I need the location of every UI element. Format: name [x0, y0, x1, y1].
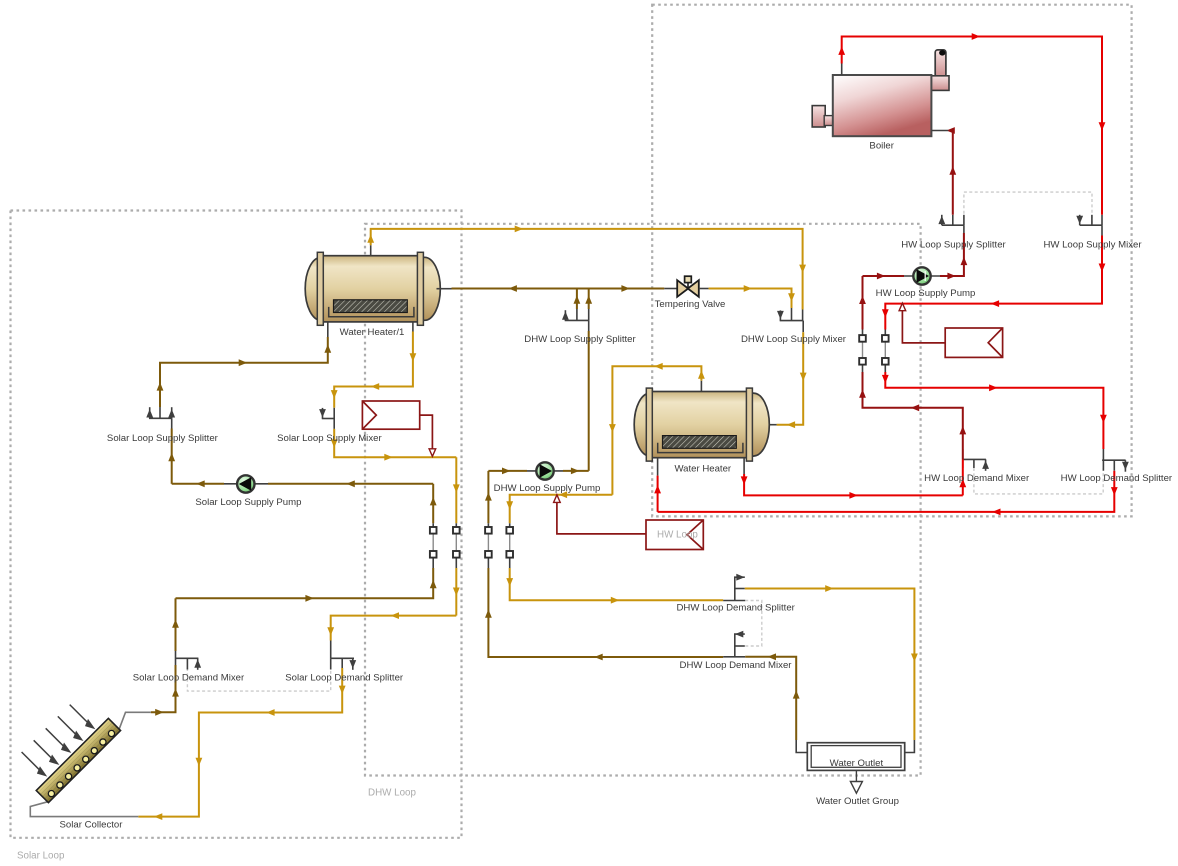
wire: WH1 top outlet long header (gold): [371, 229, 803, 310]
node: port pair squares (HW loop, right column): [882, 335, 889, 365]
wire: mixer up and left to HW pump (dark red): [863, 372, 963, 459]
svg-text:HW Loop Supply Splitter: HW Loop Supply Splitter: [901, 240, 1006, 251]
wire: demand splitter branch to water outlet right (gold): [745, 589, 915, 741]
wire: tank WH1 bottom-left port stub: [327, 322, 329, 337]
svg-text:Tempering Valve: Tempering Valve: [655, 299, 726, 310]
wire: riser into HW supply splitter: [963, 233, 965, 257]
mixer Solar Loop Demand Mixer: [176, 651, 199, 670]
HW supply bypass pipe (dashed): [964, 192, 1092, 224]
wire: splitter down to DHW pump line (brown): [588, 331, 590, 471]
loop reference tag box HW Loop (chevron left): [557, 502, 703, 550]
node: port pair squares on DHW feed riser: [506, 527, 513, 558]
wire: splitter to solar pump line (brown): [171, 429, 173, 484]
svg-text:Water Heater/1: Water Heater/1: [340, 327, 405, 338]
svg-text:Solar Loop Supply Mixer: Solar Loop Supply Mixer: [277, 433, 382, 444]
boiler Boiler: [812, 50, 949, 136]
wire: grey stub to collector bottom port: [30, 802, 138, 817]
splitter HW Loop Demand Splitter: [1102, 449, 1126, 472]
loop reference tag box (HW supply side, chevron right edge): [902, 310, 1002, 357]
wire: WH1 right port to DHW supply splitter and valve (brown): [452, 288, 665, 290]
wire: black stub at HW demand mixer: [962, 449, 964, 468]
mixer DHW Loop Supply Mixer: [780, 308, 804, 332]
wire: mixer down then left (bright red): [885, 236, 1102, 330]
wire: valve line from splitter to tempering valve (brown->black): [664, 288, 676, 290]
HW Loop dashed group box: [652, 5, 1131, 517]
wire: WH1 bottom-right port down to supply mixer loop (gold): [412, 317, 414, 332]
wire: DHW demand mixer return riser (brown, crosses boundary): [487, 471, 489, 523]
splitter Solar Loop Supply Splitter: [149, 407, 172, 428]
wire: HW pump line (dark red): [863, 275, 905, 277]
wire: black stubs at solar pump: [224, 483, 268, 485]
wire: boiler bottom-right stub: [931, 130, 948, 132]
svg-text:HW Loop: HW Loop: [657, 530, 698, 541]
wire: WH HX return riser into mixer (red): [962, 459, 964, 495]
splitter Solar Loop Demand Splitter: [331, 641, 354, 670]
DHW demand bypass pipe (dashed): [745, 601, 762, 647]
pump DHW Loop Supply Pump: [536, 462, 553, 479]
valve Tempering Valve: [677, 276, 699, 297]
HW demand bypass pipe (dashed): [974, 468, 1103, 494]
svg-text:DHW Loop Demand Splitter: DHW Loop Demand Splitter: [677, 602, 796, 613]
mixer HW Loop Supply Mixer: [1080, 215, 1102, 236]
wire: mixer outlet down and right (gold): [334, 429, 456, 457]
component Water Outlet: [807, 743, 904, 771]
wire: dark red rise through port squares: [862, 365, 864, 372]
svg-text:DHW Loop Supply Pump: DHW Loop Supply Pump: [494, 483, 601, 494]
mixer HW Loop Demand Mixer: [963, 459, 986, 470]
splitter DHW Loop Demand Splitter: [723, 577, 745, 600]
wire: demand splitter to WH HX inlet (bright red): [658, 471, 1115, 512]
wire: solar demand splitter feed (gold): [331, 616, 457, 641]
wire: WH right port stub: [767, 424, 777, 426]
solar demand bypass pipe (dashed): [187, 668, 330, 691]
node: port pair squares on DHW return riser: [485, 527, 492, 558]
svg-text:Solar Loop Supply Splitter: Solar Loop Supply Splitter: [107, 433, 219, 444]
svg-text:DHW Loop Supply Mixer: DHW Loop Supply Mixer: [741, 334, 847, 345]
solar collector panel: [36, 718, 120, 802]
wire: water outlet left to demand mixer (brown): [745, 657, 796, 740]
wire: splitter risers (brown): [576, 289, 578, 310]
svg-text:Solar Loop: Solar Loop: [17, 851, 65, 862]
svg-text:Solar Loop Supply Pump: Solar Loop Supply Pump: [195, 497, 301, 508]
svg-text:Water Heater: Water Heater: [674, 464, 731, 475]
wire: WH bottom-right port to HW demand mixer (red): [743, 458, 745, 474]
wire: collector outlet riser to mixer (brown): [151, 665, 176, 712]
node: port pair squares on solar demand line: [453, 527, 460, 558]
wire: WH outlet to demand splitter (gold, crosses boundary): [510, 495, 613, 524]
svg-text:DHW Loop: DHW Loop: [368, 788, 416, 799]
wire: WH top port outlet (gold): [612, 366, 701, 494]
svg-text:HW Loop Supply Pump: HW Loop Supply Pump: [876, 288, 976, 299]
svg-text:HW Loop Demand Splitter: HW Loop Demand Splitter: [1061, 473, 1173, 484]
wire: DHW pump line (brown): [563, 470, 589, 472]
svg-text:DHW Loop Supply Splitter: DHW Loop Supply Splitter: [524, 334, 636, 345]
splitter HW Loop Supply Splitter: [942, 215, 964, 233]
sun ray arrows onto collector: [22, 705, 94, 776]
svg-text:Water Outlet: Water Outlet: [830, 758, 884, 769]
wire: stub into solar supply splitter: [159, 407, 161, 418]
wire: WH1 top port stub: [370, 245, 372, 256]
tank Water Heater/1: [305, 252, 440, 325]
wire: HW source into WH bottom-left port (red): [657, 458, 659, 476]
wire: WH1 inlet riser (brown): [160, 337, 328, 407]
svg-text:Solar Collector: Solar Collector: [60, 820, 124, 831]
wire: valve outlet to DHW supply mixer (gold): [699, 288, 709, 290]
wire: grey stub from collector top port: [119, 712, 151, 730]
svg-text:Water Outlet Group: Water Outlet Group: [816, 796, 899, 807]
pump HW Loop Supply Pump: [913, 267, 930, 284]
wire: solar pump discharge line (brown): [268, 483, 433, 485]
wire: solar pump suction line (brown): [172, 483, 224, 485]
wire: splitter down to collector inlet (gold): [138, 668, 342, 817]
node: port pair squares on solar supply riser: [430, 527, 437, 558]
splitter DHW Loop Supply Splitter: [565, 309, 589, 331]
svg-text:DHW Loop Demand Mixer: DHW Loop Demand Mixer: [680, 660, 793, 671]
wire: gold riser down to demand splitter feed (crosses loop boundary): [455, 457, 457, 523]
wire: water outlet group stub and symbol: [855, 770, 857, 781]
mixer Solar Loop Supply Mixer: [322, 408, 334, 429]
node: port pair squares (HW loop, left column): [859, 335, 866, 365]
wire: boiler outlet top to HW supply mixer (bright red): [841, 64, 843, 76]
mixer DHW Loop Demand Mixer: [723, 634, 745, 657]
pump Solar Loop Supply Pump: [237, 475, 254, 492]
wire: mixer outlet down to WH right port (gold): [777, 332, 804, 425]
wire: red drop through port squares: [884, 330, 886, 335]
svg-text:Solar Loop Demand Splitter: Solar Loop Demand Splitter: [285, 673, 404, 684]
svg-text:HW Loop Supply Mixer: HW Loop Supply Mixer: [1043, 240, 1142, 251]
wire: riser down to solar demand mixer (brown): [175, 598, 177, 651]
tank Water Heater: [634, 388, 769, 461]
svg-text:HW Loop Demand Mixer: HW Loop Demand Mixer: [924, 473, 1030, 484]
wire: WH top port stub: [700, 381, 702, 392]
svg-text:Boiler: Boiler: [869, 141, 894, 152]
svg-text:Solar Loop Demand Mixer: Solar Loop Demand Mixer: [133, 673, 245, 684]
wire: splitter up to boiler return port (dark red): [950, 131, 953, 215]
Solar Loop dashed group box: [11, 211, 462, 838]
wire: solar demand riser (brown, crosses loop boundary): [432, 484, 434, 524]
DHW Loop dashed group box: [365, 224, 921, 776]
loop reference tag box (solar, chevron right): [362, 401, 432, 449]
wire: WH1 right port stub: [437, 288, 452, 290]
